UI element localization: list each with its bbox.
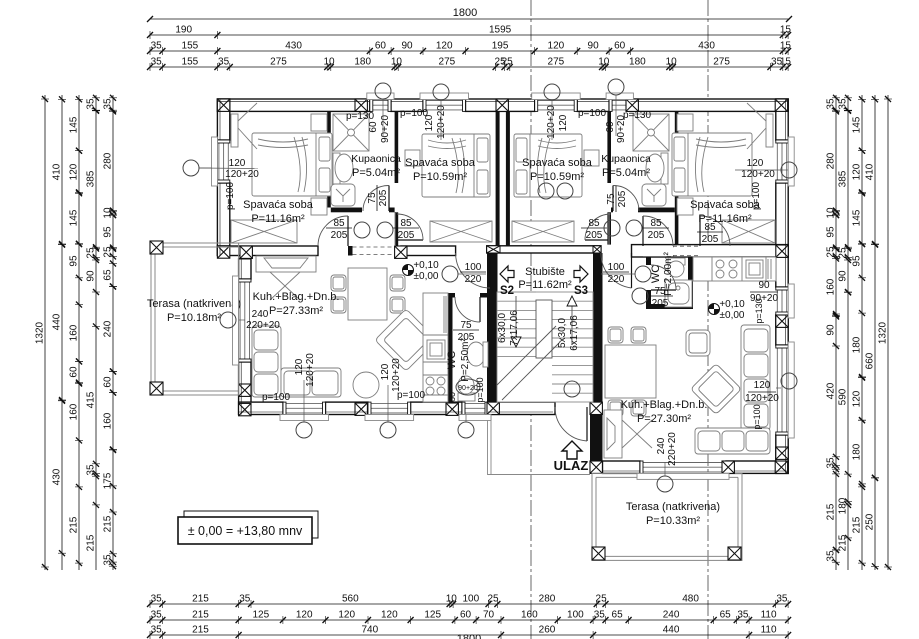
svg-text:10: 10 — [666, 57, 678, 68]
svg-text:WC: WC — [650, 265, 662, 283]
column top C — [496, 99, 508, 111]
door label 75/205 left bath — [367, 185, 389, 211]
sill top window — [420, 93, 469, 100]
svg-text:280: 280 — [103, 152, 114, 169]
tv cabinet right living — [604, 410, 652, 458]
svg-text:Kuh.+Blag.+Dn.b.: Kuh.+Blag.+Dn.b. — [621, 399, 708, 411]
svg-text:90: 90 — [86, 270, 97, 282]
svg-text:160: 160 — [69, 324, 80, 341]
level annotation box — [184, 511, 318, 538]
svg-text:215: 215 — [69, 516, 80, 533]
door label 75/205 left wc — [453, 320, 479, 343]
door right living-hall (85/205) — [643, 216, 673, 246]
bed right bedroom 2 — [514, 134, 582, 197]
partition bath/bed2 left upper — [395, 111, 399, 183]
leader line west window balloon — [199, 167, 217, 169]
svg-text:15: 15 — [780, 57, 792, 68]
svg-text:60: 60 — [69, 366, 80, 378]
svg-text:35: 35 — [103, 554, 114, 566]
window 60 left bathroom — [370, 99, 391, 111]
svg-text:120+20: 120+20 — [305, 353, 316, 387]
svg-text:280: 280 — [826, 152, 837, 169]
svg-text:90: 90 — [826, 324, 837, 336]
leader south window 2 up — [387, 385, 389, 415]
door label 75/205 right bath — [606, 186, 628, 212]
svg-text:25: 25 — [838, 247, 849, 259]
door label 85/205 bed2r — [581, 218, 607, 241]
nightstand — [677, 198, 693, 215]
svg-text:205: 205 — [378, 189, 389, 206]
svg-text:P=11.16m²: P=11.16m² — [251, 213, 305, 225]
door left bedroom 2 (85/205) — [397, 214, 423, 240]
svg-text:120+20: 120+20 — [225, 169, 259, 180]
door label 85/205 bathr — [643, 218, 669, 241]
svg-text:260: 260 — [539, 625, 556, 636]
window 120 left living 2 — [368, 402, 411, 414]
svg-text:205: 205 — [617, 190, 628, 207]
svg-text:25: 25 — [86, 247, 97, 259]
leader top window 3 — [551, 100, 553, 140]
column west mid — [217, 246, 229, 258]
svg-text:125: 125 — [252, 610, 269, 621]
column sw 2 — [239, 403, 251, 415]
svg-text:215: 215 — [192, 594, 209, 605]
svg-text:75: 75 — [654, 286, 666, 297]
reference circle — [626, 220, 642, 236]
svg-text:35: 35 — [151, 57, 163, 68]
column band left 2 — [395, 246, 407, 258]
svg-text:P=5.04m²: P=5.04m² — [352, 167, 400, 179]
svg-text:180: 180 — [838, 497, 849, 514]
svg-text:215: 215 — [852, 516, 863, 533]
svg-text:60: 60 — [614, 41, 626, 52]
svg-text:35: 35 — [776, 594, 788, 605]
svg-text:7x17,06: 7x17,06 — [509, 310, 520, 346]
svg-text:5x30,0: 5x30,0 — [557, 318, 568, 348]
door label 85/205 bed1r — [697, 222, 723, 245]
svg-text:215: 215 — [826, 503, 837, 520]
dining table left — [348, 268, 387, 320]
window 240 right living terrace door — [640, 461, 726, 473]
svg-text:215: 215 — [192, 610, 209, 621]
svg-text:75: 75 — [606, 193, 617, 205]
kitchen left — [423, 293, 448, 402]
window 120 left bedroom 1 — [217, 140, 229, 183]
svg-text:120: 120 — [754, 380, 771, 391]
svg-text:90+20: 90+20 — [380, 115, 391, 144]
leader east window into room — [735, 169, 781, 171]
svg-text:Spavaća soba: Spavaća soba — [522, 157, 593, 169]
svg-text:95: 95 — [69, 255, 80, 267]
svg-text:205: 205 — [648, 230, 665, 241]
chair — [608, 400, 623, 416]
nightstand — [311, 114, 327, 131]
svg-text:WC: WC — [446, 351, 458, 369]
door right bedroom 1 (85/205) — [700, 216, 730, 246]
svg-text:10: 10 — [826, 207, 837, 219]
svg-text:145: 145 — [852, 209, 863, 226]
svg-text:35: 35 — [86, 98, 97, 110]
thin wall stub below P4 — [608, 213, 610, 245]
svg-text:220: 220 — [608, 274, 625, 285]
svg-text:180: 180 — [629, 57, 646, 68]
svg-text:110: 110 — [761, 625, 777, 636]
svg-text:±0,00: ±0,00 — [720, 310, 745, 321]
reference circle — [564, 381, 580, 397]
right east wall seg3 — [776, 435, 788, 473]
corner shelf right bedroom 1 — [747, 103, 773, 149]
svg-text:120: 120 — [747, 158, 764, 169]
wardrobe right bedroom 2 — [512, 221, 574, 242]
partition bed2'/bath' right lower — [607, 212, 611, 244]
svg-text:220: 220 — [465, 274, 482, 285]
shower right bath — [633, 114, 669, 151]
svg-text:10: 10 — [323, 57, 335, 68]
svg-text:+0,10: +0,10 — [413, 260, 439, 271]
svg-text:100: 100 — [462, 594, 479, 605]
window 240 left living terrace door — [239, 279, 251, 362]
svg-text:120: 120 — [558, 114, 569, 131]
svg-text:240: 240 — [252, 309, 269, 320]
svg-text:205: 205 — [652, 298, 669, 309]
right living west wall — [590, 402, 603, 474]
corner shelf left bedroom 1 — [231, 103, 257, 149]
svg-text:215: 215 — [103, 515, 114, 532]
leader line right stair door — [601, 273, 635, 275]
left dim col 5 — [112, 95, 114, 570]
svg-text:120: 120 — [69, 163, 80, 180]
svg-text:120: 120 — [338, 610, 355, 621]
svg-text:590: 590 — [838, 388, 849, 405]
svg-text:1320: 1320 — [878, 321, 889, 344]
svg-text:10: 10 — [391, 57, 403, 68]
toilet right wc — [668, 258, 685, 277]
bed right bedroom 1 — [672, 133, 752, 196]
svg-text:35: 35 — [826, 98, 837, 110]
left dim col 3 — [78, 95, 80, 570]
svg-text:180: 180 — [852, 336, 863, 353]
svg-text:180: 180 — [852, 443, 863, 460]
party wall east leaf — [506, 111, 510, 245]
east wall upper segment — [776, 99, 788, 140]
svg-text:120: 120 — [229, 158, 246, 169]
svg-text:120+20: 120+20 — [391, 358, 402, 392]
svg-text:P=10.59m²: P=10.59m² — [413, 171, 467, 183]
reference circle — [538, 183, 554, 199]
leader top window 1 — [382, 99, 384, 136]
left bath south wall e — [389, 208, 395, 213]
column stair hall west — [487, 246, 500, 253]
svg-text:+0,10: +0,10 — [719, 299, 745, 310]
svg-text:120: 120 — [296, 610, 313, 621]
reference circle — [296, 422, 312, 438]
column east mid — [776, 245, 788, 257]
leader line east window balloon — [781, 169, 788, 171]
svg-text:35: 35 — [151, 41, 163, 52]
svg-text:60: 60 — [103, 376, 114, 388]
svg-text:195: 195 — [492, 41, 509, 52]
reference circle — [375, 83, 391, 99]
right terrace outline — [592, 473, 742, 560]
column east 2 — [776, 315, 788, 327]
entrance arrow — [562, 441, 582, 459]
column band left — [240, 246, 252, 258]
nightstand — [405, 150, 420, 166]
party wall west leaf — [496, 111, 500, 245]
bed left bedroom 2 — [422, 134, 490, 197]
west wall upper segment — [217, 99, 229, 140]
west wall lower segment — [217, 183, 229, 256]
svg-text:P=10.59m²: P=10.59m² — [530, 171, 584, 183]
sill left south window 1 — [280, 415, 329, 421]
svg-text:145: 145 — [69, 209, 80, 226]
left wc west wall — [448, 293, 453, 402]
svg-text:10: 10 — [598, 57, 610, 68]
svg-text:205: 205 — [586, 230, 603, 241]
svg-text:90: 90 — [588, 41, 600, 52]
reference circle — [433, 84, 449, 100]
svg-text:Spavaća soba: Spavaća soba — [405, 157, 476, 169]
right dim col 2 — [847, 95, 849, 570]
ottoman left living — [353, 372, 379, 398]
corner armchair right — [691, 364, 742, 415]
reference circle — [635, 266, 651, 282]
top exterior wall segment 2 — [391, 99, 423, 111]
leader top window 2 — [440, 100, 442, 140]
door opening right hall — [643, 246, 673, 256]
svg-text:85: 85 — [588, 218, 600, 229]
left living west wall upper — [239, 259, 251, 279]
terrace post rt se — [728, 547, 741, 560]
vestibule west thin wall — [488, 415, 492, 475]
leader line left stair door — [458, 273, 486, 275]
svg-text:110: 110 — [761, 610, 777, 621]
top exterior wall segment 5 — [630, 99, 788, 111]
svg-text:10: 10 — [103, 207, 114, 219]
partition bed1/bath left — [327, 111, 331, 207]
svg-text:430: 430 — [698, 41, 715, 52]
svg-text:120: 120 — [852, 163, 863, 180]
svg-text:240: 240 — [103, 320, 114, 337]
reference circle — [544, 84, 560, 100]
svg-text:85: 85 — [333, 218, 345, 229]
svg-text:205: 205 — [458, 332, 475, 343]
svg-text:60: 60 — [460, 610, 472, 621]
leader lines south balloons — [303, 415, 305, 423]
right east wall seg2 — [776, 315, 788, 345]
door stair to left unit (100/220) — [456, 253, 490, 288]
entrance door ULAZ — [555, 407, 587, 441]
right wc west wall lower — [646, 290, 651, 309]
svg-text:P=11.62m²: P=11.62m² — [518, 279, 572, 291]
terrace post lt nw — [150, 241, 163, 254]
svg-text:95: 95 — [103, 226, 114, 238]
svg-text:410: 410 — [865, 163, 876, 180]
window 60 left wc — [462, 402, 488, 414]
left bath south wall w — [331, 208, 362, 213]
svg-text:p=130: p=130 — [623, 110, 652, 121]
column south mid 1 — [355, 403, 367, 415]
left band wall jamb — [348, 246, 353, 256]
svg-text:85: 85 — [650, 218, 662, 229]
column entry w — [487, 402, 499, 414]
reference circle — [380, 422, 396, 438]
reference circle — [557, 183, 573, 199]
armchair right living — [686, 330, 710, 356]
svg-text:95: 95 — [826, 226, 837, 238]
svg-text:120: 120 — [381, 610, 398, 621]
top exterior wall segment 4 — [577, 99, 609, 111]
svg-text:145: 145 — [852, 116, 863, 133]
partition bath/bed2 left lower — [395, 212, 399, 246]
svg-text:430: 430 — [52, 468, 63, 485]
chair — [331, 297, 346, 313]
svg-text:120: 120 — [294, 358, 305, 375]
svg-text:6x17,06: 6x17,06 — [569, 315, 580, 351]
left living south wall seg4 — [488, 402, 555, 414]
column east 3 — [776, 447, 788, 459]
svg-text:160: 160 — [826, 278, 837, 295]
svg-text:180: 180 — [354, 57, 371, 68]
right east wall seg1 — [776, 257, 788, 287]
svg-text:6x30,0: 6x30,0 — [497, 313, 508, 343]
svg-text:415: 415 — [86, 391, 97, 408]
svg-text:±0,00: ±0,00 — [414, 271, 439, 282]
svg-text:85: 85 — [400, 218, 412, 229]
svg-text:35: 35 — [218, 57, 230, 68]
S3 arrow — [574, 266, 588, 282]
nightstand — [311, 198, 327, 215]
reference circle — [781, 373, 797, 389]
sill east window — [788, 137, 794, 186]
column se — [775, 461, 787, 473]
chair — [631, 400, 646, 416]
column top E — [775, 99, 787, 111]
column top D — [626, 99, 638, 111]
bottom dim row 3 — [150, 634, 788, 636]
wardrobe right bedroom 1 — [722, 220, 775, 243]
svg-text:160: 160 — [69, 403, 80, 420]
svg-text:120: 120 — [852, 390, 863, 407]
svg-text:1800: 1800 — [457, 633, 481, 639]
vestibule threshold line — [488, 474, 591, 476]
reference circle — [377, 222, 393, 238]
column top A — [217, 99, 229, 111]
svg-text:35: 35 — [103, 98, 114, 110]
svg-text:p=100: p=100 — [752, 404, 762, 429]
chair — [390, 275, 405, 291]
svg-text:60: 60 — [447, 392, 457, 402]
door label 75/205 right wc — [647, 286, 673, 309]
right dim col 5 — [887, 95, 889, 570]
door label 85/205 left 2 — [393, 218, 419, 241]
left living south wall seg2 — [326, 402, 369, 414]
svg-text:p=100: p=100 — [578, 108, 607, 119]
leader right south window up — [664, 462, 666, 476]
door left living-hall 1 (85/205) — [318, 216, 348, 246]
svg-text:215: 215 — [192, 625, 209, 636]
svg-text:100: 100 — [567, 610, 584, 621]
svg-text:100: 100 — [465, 262, 482, 273]
left terrace outline — [151, 243, 239, 395]
column stair hall east — [593, 246, 601, 253]
svg-text:420: 420 — [826, 382, 837, 399]
svg-text:p=100: p=100 — [262, 392, 291, 403]
svg-text:440: 440 — [52, 313, 63, 330]
door label 100/220 right — [603, 262, 629, 285]
reference circle — [657, 476, 673, 492]
door right wc (75/205) — [651, 265, 676, 290]
svg-text:120+20: 120+20 — [741, 169, 775, 180]
svg-text:± 0,00 = +13,80 mnv: ± 0,00 = +13,80 mnv — [188, 524, 303, 538]
leader south window 1 up — [303, 380, 305, 415]
reference circle — [183, 160, 199, 176]
sill right south window — [637, 473, 729, 479]
svg-text:S3: S3 — [574, 285, 588, 297]
svg-text:60: 60 — [375, 41, 387, 52]
window 120 right bedroom 2 — [535, 99, 578, 111]
svg-text:Kupaonica: Kupaonica — [351, 153, 401, 165]
svg-text:740: 740 — [361, 625, 378, 636]
svg-text:75: 75 — [460, 320, 472, 331]
left dim col 2 — [61, 95, 63, 570]
svg-text:410: 410 — [52, 163, 63, 180]
svg-text:120+20: 120+20 — [745, 393, 779, 404]
svg-text:90: 90 — [758, 280, 770, 291]
right wc west wall upper — [646, 257, 651, 265]
door label 100/220 left — [460, 262, 486, 285]
svg-text:p=130: p=130 — [754, 298, 764, 323]
svg-text:60: 60 — [605, 121, 616, 133]
dining table right — [605, 345, 656, 398]
right dim col 1 — [835, 95, 837, 570]
svg-text:240: 240 — [656, 437, 667, 454]
right bath south wall w stub — [611, 208, 613, 213]
chair — [390, 297, 405, 313]
sill top window — [367, 93, 394, 100]
left living south wall seg1 — [239, 402, 283, 414]
sill west window — [212, 137, 218, 186]
sill left living west window — [233, 276, 239, 365]
east wall mid segment — [776, 183, 788, 257]
svg-text:125: 125 — [424, 610, 441, 621]
chair — [608, 327, 623, 343]
svg-text:S2: S2 — [500, 285, 514, 297]
svg-text:120: 120 — [424, 114, 435, 131]
door right bedroom 2 (85/205) — [585, 214, 611, 240]
svg-text:Kuh.+Blag.+Dn.b.: Kuh.+Blag.+Dn.b. — [253, 291, 340, 303]
svg-text:35: 35 — [86, 464, 97, 476]
stair west wall — [487, 253, 498, 415]
reference circle — [220, 312, 236, 328]
reference circle — [608, 79, 624, 95]
bed left bedroom 1 — [252, 133, 332, 196]
sill left wc window — [459, 415, 491, 421]
svg-text:10: 10 — [446, 594, 458, 605]
svg-text:480: 480 — [682, 594, 699, 605]
svg-text:35: 35 — [151, 594, 163, 605]
svg-text:560: 560 — [342, 594, 359, 605]
svg-text:85: 85 — [704, 222, 716, 233]
svg-text:385: 385 — [86, 170, 97, 187]
top dim row 3 — [150, 50, 788, 52]
sill top window — [532, 93, 581, 100]
column sw 1 — [239, 384, 251, 396]
svg-text:120: 120 — [380, 363, 391, 380]
left band wall e — [401, 246, 456, 256]
bottom dim row 1 — [150, 603, 788, 605]
svg-text:155: 155 — [182, 57, 199, 68]
